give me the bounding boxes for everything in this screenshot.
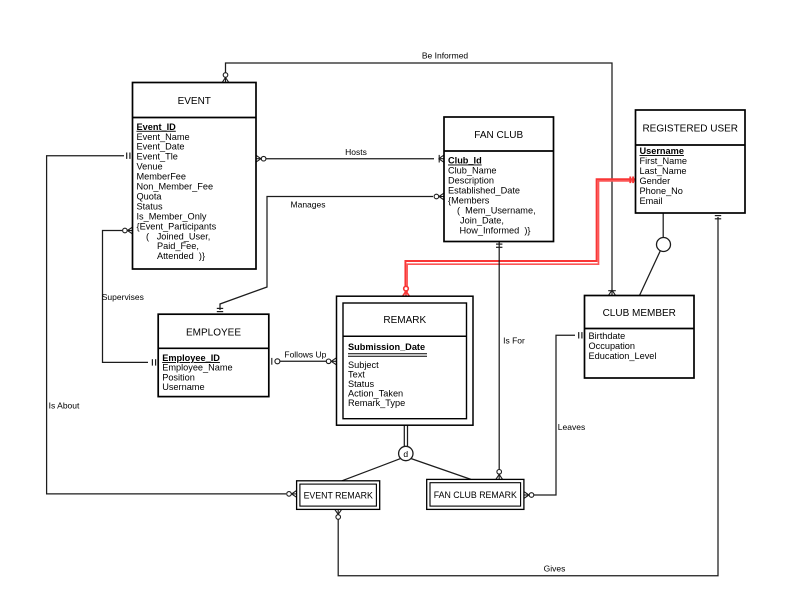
entity EVENT — [133, 83, 257, 270]
svg-text:Paid_Fee,: Paid_Fee, — [157, 241, 199, 251]
svg-text:Non_Member_Fee: Non_Member_Fee — [137, 182, 214, 192]
svg-text:EMPLOYEE: EMPLOYEE — [186, 327, 241, 338]
svg-text:Status: Status — [348, 379, 374, 389]
wire d diagonal to EVENT REMARK — [342, 459, 401, 481]
svg-text:Event_Date: Event_Date — [137, 142, 185, 152]
svg-text:{Event_Participants: {Event_Participants — [137, 221, 217, 231]
entity EVENT REMARK (associative, double border) — [297, 481, 380, 510]
label Supervises — [102, 292, 144, 302]
label Follows Up — [284, 350, 326, 360]
marker one-or-many at CLUB MEMBER top (Be Informed) — [608, 290, 616, 295]
svg-text:Education_Level: Education_Level — [589, 351, 657, 361]
node ISA circle — [657, 238, 671, 252]
svg-text:Gives: Gives — [544, 563, 566, 573]
svg-text:Employee_ID: Employee_ID — [162, 353, 220, 363]
label Leaves — [558, 422, 585, 432]
svg-text:Birthdate: Birthdate — [589, 331, 626, 341]
wire Be Informed (EVENT top to CLUB MEMBER top) — [226, 63, 613, 291]
svg-text:MemberFee: MemberFee — [137, 172, 187, 182]
label Is About — [49, 401, 80, 411]
svg-text:REMARK: REMARK — [383, 315, 426, 326]
wire Supervises (EVENT left to EMPLOYEE left) — [103, 231, 149, 363]
svg-text:Attended )}: Attended )} — [157, 251, 205, 261]
svg-text:Event_ID: Event_ID — [137, 122, 177, 132]
marker exactly-one at FAN CLUB bottom (Is For) — [496, 244, 502, 247]
wire Hosts (EVENT right to FAN CLUB left) — [266, 158, 434, 160]
svg-text:Username: Username — [162, 382, 204, 392]
entity FAN CLUB REMARK (associative, double border) — [427, 479, 524, 509]
marker exactly-one at REGISTERED USER bottom (Gives) — [715, 216, 721, 219]
svg-text:Employee_Name: Employee_Name — [162, 363, 232, 373]
marker zero-or-many at REMARK left (Follows Up) — [326, 358, 336, 365]
svg-text:Position: Position — [162, 372, 195, 382]
svg-text:Venue: Venue — [137, 162, 163, 172]
svg-text:CLUB MEMBER: CLUB MEMBER — [603, 308, 676, 319]
svg-text:Follows Up: Follows Up — [284, 350, 326, 360]
marker zero-or-many at FAN CLUB left (Manages) — [434, 193, 444, 200]
marker red zero-or-many at REMARK top — [403, 286, 410, 296]
svg-text:Action_Taken: Action_Taken — [348, 388, 403, 398]
svg-text:Manages: Manages — [291, 199, 326, 209]
wire ISA diagonal (circle to CLUB MEMBER top) — [640, 251, 661, 296]
marker exactly-one at EVENT left (Is About) — [127, 153, 130, 159]
svg-text:Username: Username — [640, 146, 684, 156]
marker zero-or-many at FAN CLUB REMARK right (Leaves) — [524, 492, 534, 499]
svg-text:Established_Date: Established_Date — [448, 186, 520, 196]
svg-text:Last_Name: Last_Name — [640, 166, 687, 176]
marker zero-or-many at EVENT right (Hosts) — [256, 155, 266, 162]
entity EMPLOYEE — [158, 314, 269, 396]
entity FAN CLUB — [444, 117, 554, 242]
marker zero-or-many at EVENT left (Supervises) — [123, 227, 133, 234]
wire Is For (FAN CLUB bottom to FAN CLUB REMARK top) — [498, 242, 500, 476]
label Be Informed — [422, 51, 469, 61]
marker exactly-one at EMPLOYEE left (Supervises) — [152, 359, 155, 365]
svg-text:Status: Status — [137, 201, 163, 211]
marker exactly-one at EMPLOYEE top (Manages) — [217, 308, 223, 311]
svg-text:How_Informed )}: How_Informed )} — [460, 226, 531, 236]
svg-text:Is_Member_Only: Is_Member_Only — [137, 211, 207, 221]
svg-text:Description: Description — [448, 176, 494, 186]
svg-text:Club_Id: Club_Id — [448, 156, 482, 166]
svg-text:Hosts: Hosts — [345, 147, 367, 157]
wire Leaves (CLUB MEMBER left to FAN CLUB REMARK right) — [534, 335, 575, 495]
svg-text:EVENT: EVENT — [178, 96, 211, 107]
wire double line (REMARK bottom to d circle) — [404, 425, 407, 446]
svg-text:EVENT REMARK: EVENT REMARK — [304, 490, 373, 500]
wire ISA stem (REGISTERED USER bottom to circle) — [662, 213, 664, 238]
svg-text:{Members: {Members — [448, 196, 490, 206]
svg-text:( Joined_User,: ( Joined_User, — [146, 231, 210, 241]
svg-text:Is For: Is For — [503, 336, 525, 346]
entity REGISTERED USER — [636, 110, 746, 213]
svg-text:Submission_Date: Submission_Date — [348, 342, 425, 352]
marker zero-or-many at EVENT REMARK bottom (Gives) — [335, 509, 342, 519]
wire Follows Up (EMPLOYEE right to REMARK left) — [280, 360, 326, 362]
label Hosts — [345, 147, 367, 157]
marker red exactly-one at REGISTERED USER left — [630, 177, 633, 184]
svg-text:Join_Date,: Join_Date, — [460, 216, 504, 226]
svg-text:Event_Tle: Event_Tle — [137, 152, 178, 162]
label Is For — [503, 336, 525, 346]
wire red highlight (REMARK top to REGISTERED USER left) — [405, 179, 635, 292]
svg-text:FAN CLUB REMARK: FAN CLUB REMARK — [434, 490, 517, 500]
svg-text:Occupation: Occupation — [589, 341, 635, 351]
svg-text:REGISTERED USER: REGISTERED USER — [642, 124, 738, 135]
label Manages — [291, 199, 326, 209]
svg-text:( Mem_Username,: ( Mem_Username, — [457, 206, 536, 216]
wire Gives (EVENT REMARK bottom to REGISTERED USER bottom) — [338, 217, 718, 576]
marker zero-or-one at EMPLOYEE right (Follows Up) — [272, 358, 280, 365]
svg-text:Email: Email — [640, 196, 663, 206]
svg-text:Supervises: Supervises — [102, 292, 144, 302]
label Gives — [544, 563, 566, 573]
svg-text:Phone_No: Phone_No — [640, 186, 683, 196]
svg-text:Quota: Quota — [137, 191, 163, 201]
svg-text:Text: Text — [348, 369, 365, 379]
entity CLUB MEMBER — [585, 296, 695, 379]
svg-text:Subject: Subject — [348, 360, 379, 370]
entity REMARK (weak, double border) — [337, 296, 474, 425]
svg-text:d: d — [403, 449, 408, 459]
marker zero-or-many at EVENT REMARK left (Is About) — [287, 491, 297, 498]
wire Manages (FAN CLUB left to EMPLOYEE top) — [220, 197, 433, 311]
svg-text:Remark_Type: Remark_Type — [348, 398, 405, 408]
marker one-or-many at FAN CLUB left (Hosts) — [439, 155, 444, 163]
svg-text:Event_Name: Event_Name — [137, 132, 190, 142]
wire d diagonal to FAN CLUB REMARK — [411, 459, 471, 480]
svg-text:Club_Name: Club_Name — [448, 166, 497, 176]
node d circle — [399, 446, 413, 460]
marker zero-or-many at FAN CLUB REMARK top (Is For) — [496, 470, 503, 480]
svg-text:Gender: Gender — [640, 176, 671, 186]
svg-text:Be Informed: Be Informed — [422, 51, 469, 61]
svg-text:Is About: Is About — [49, 401, 80, 411]
wire Is About (EVENT left to EVENT REMARK left) — [47, 156, 286, 494]
svg-text:Leaves: Leaves — [558, 422, 585, 432]
svg-text:First_Name: First_Name — [640, 156, 687, 166]
marker zero-or-many at EVENT top (Be Informed) — [222, 73, 229, 83]
svg-text:FAN CLUB: FAN CLUB — [474, 130, 523, 141]
marker exactly-one at CLUB MEMBER left (Leaves) — [579, 332, 582, 338]
